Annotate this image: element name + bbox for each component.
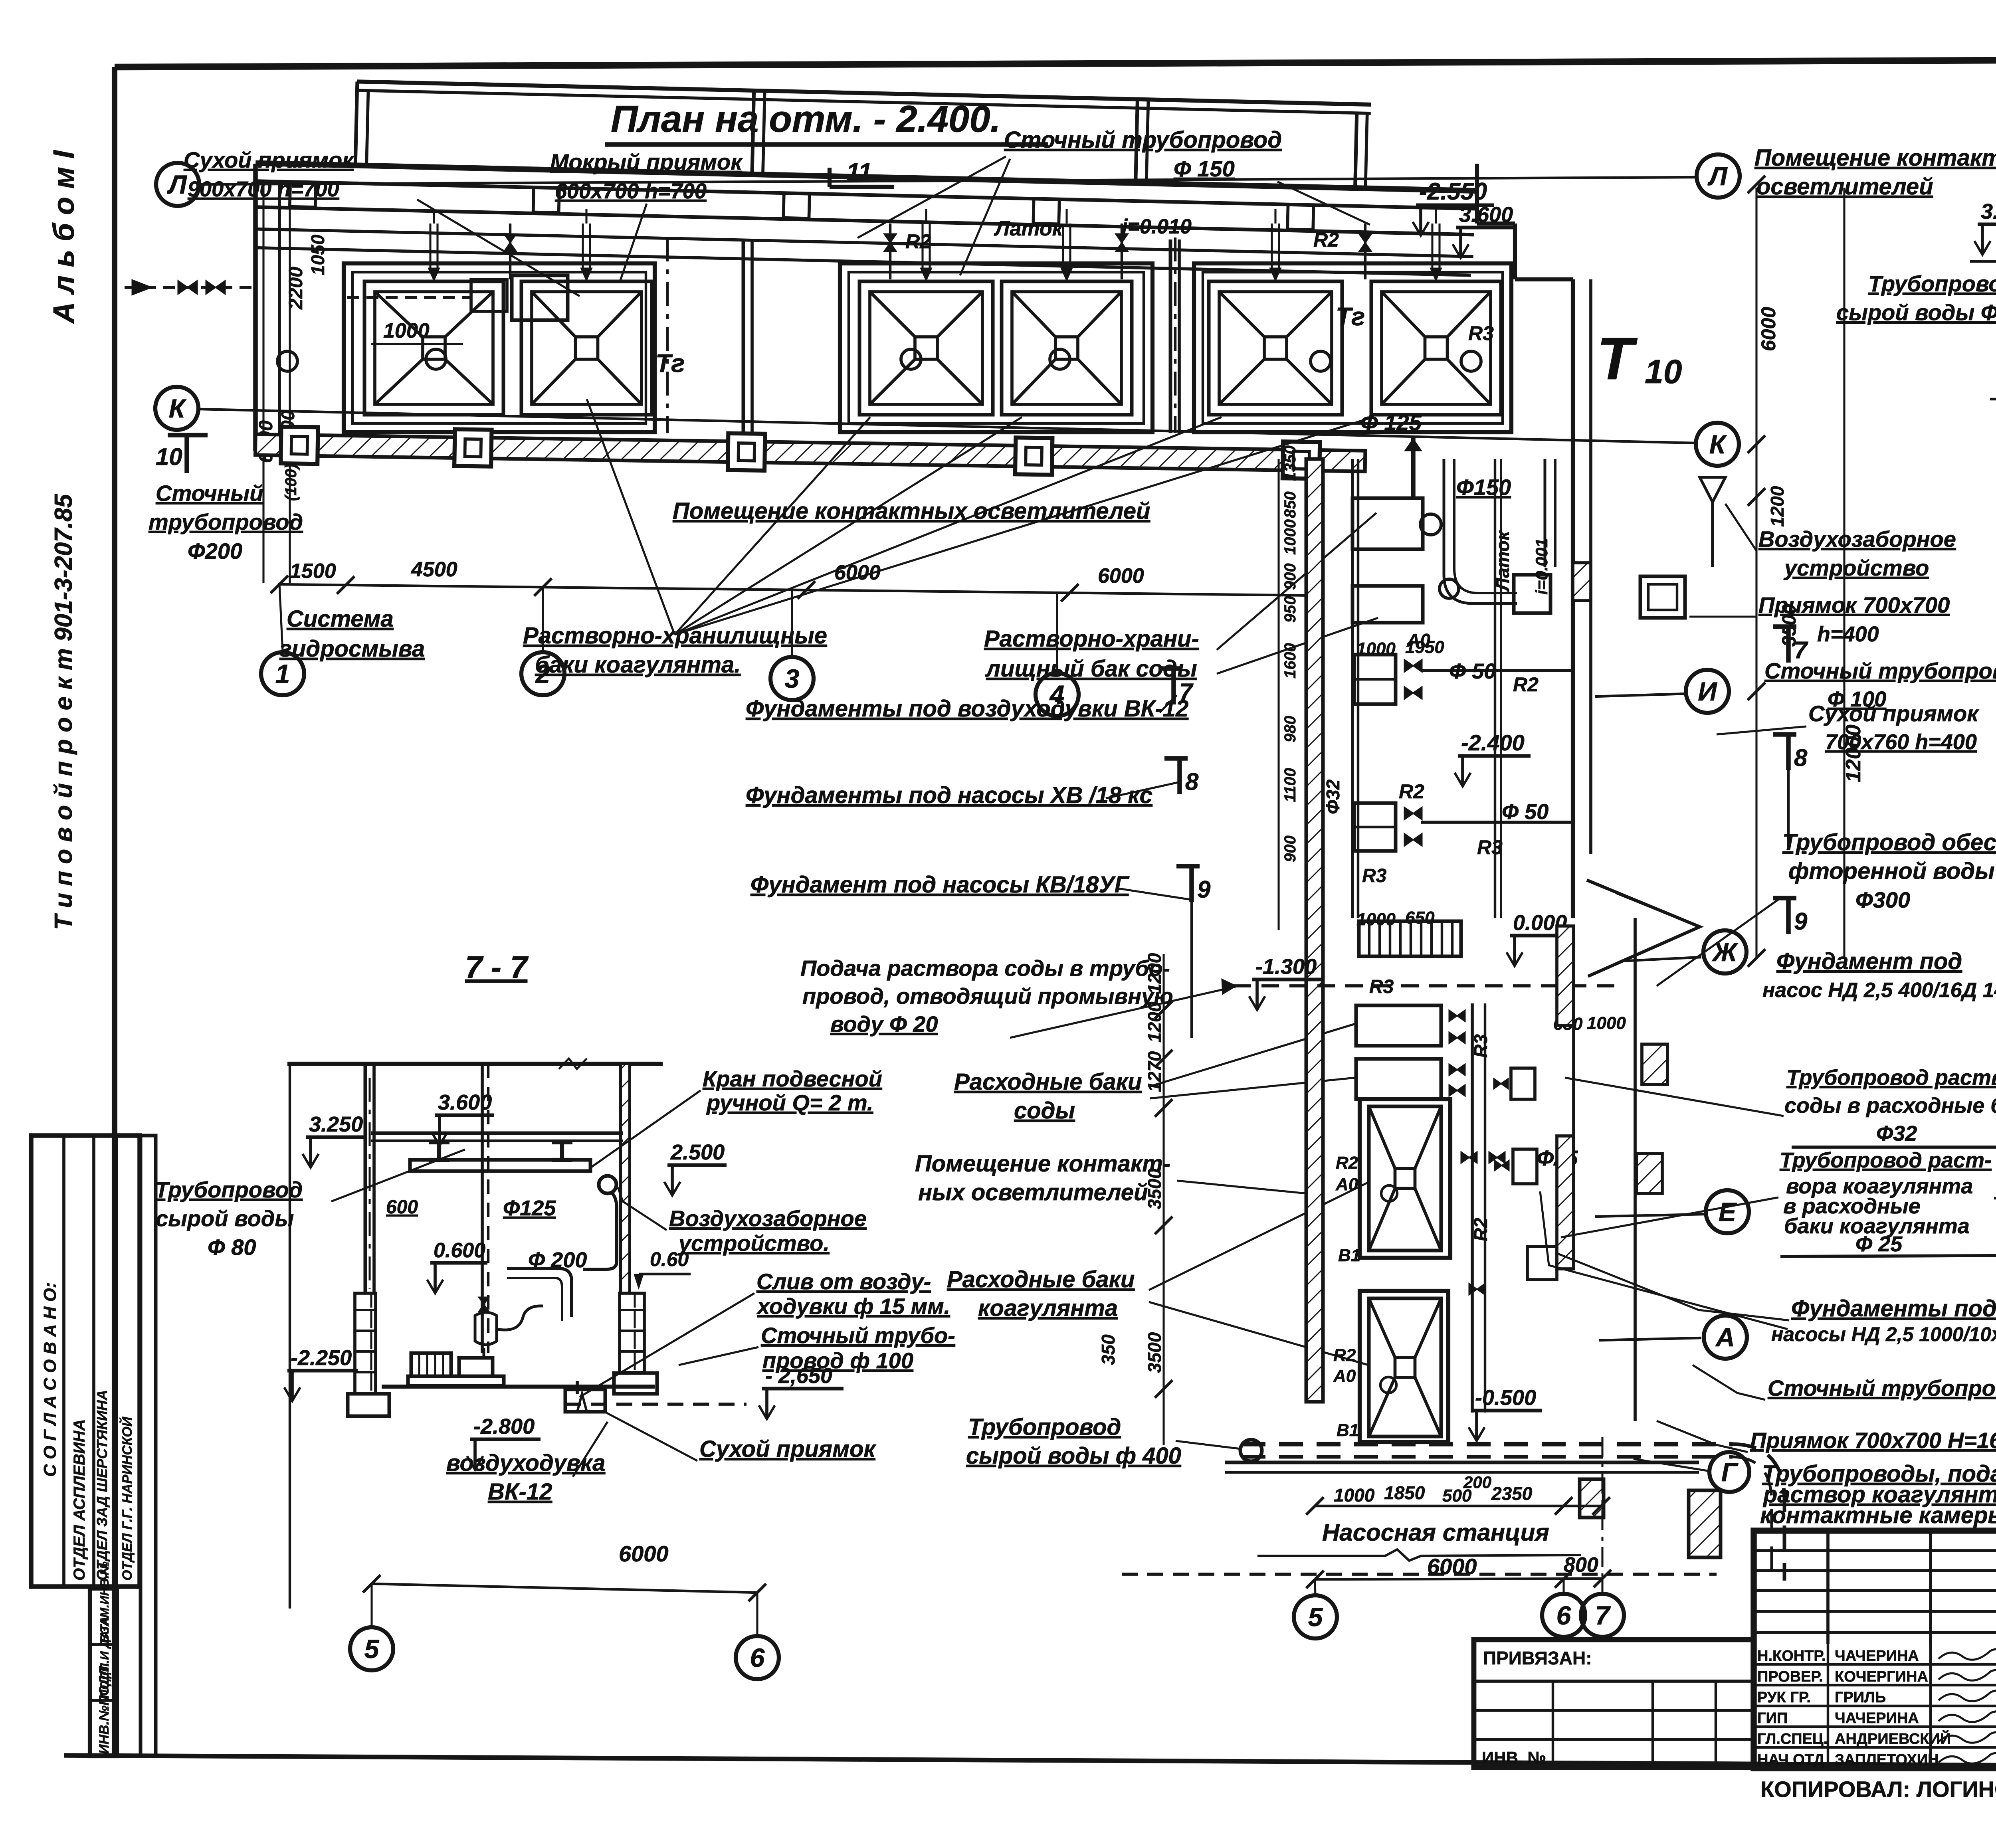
7-7 crane beam	[410, 1160, 590, 1171]
svg-text:Т: Т	[1597, 325, 1638, 392]
big tank 2	[1360, 1291, 1448, 1442]
svg-text:Ф200: Ф200	[188, 538, 242, 564]
section ticks 7 8 9 left	[1171, 669, 1176, 704]
svg-text:10: 10	[1645, 353, 1682, 390]
svg-text:8: 8	[1794, 744, 1808, 771]
svg-text:1050: 1050	[307, 234, 328, 275]
svg-text:7: 7	[1595, 1601, 1611, 1630]
svg-text:Фундаменты под насосы ХВ /18 к: Фундаменты под насосы ХВ /18 кс	[746, 782, 1152, 808]
svg-text:3500: 3500	[1144, 1168, 1165, 1209]
leaders to tanks	[587, 399, 675, 635]
svg-text:В1: В1	[1338, 1246, 1360, 1265]
svg-text:h=400: h=400	[1817, 622, 1879, 646]
svg-text:фторенной воды: фторенной воды	[1788, 858, 1995, 884]
svg-text:ЧАЧЕРИНА: ЧАЧЕРИНА	[1835, 1648, 1919, 1664]
svg-text:R3: R3	[1468, 322, 1494, 344]
svg-text:НАЧ.ОТД: НАЧ.ОТД	[1757, 1751, 1824, 1768]
axis circle К	[1696, 423, 1739, 466]
svg-text:С О Г Л А С О В А Н О:: С О Г Л А С О В А Н О:	[40, 1282, 60, 1477]
U pipe (lotok)	[1444, 459, 1517, 603]
svg-text:ГЛ.СПЕЦ.: ГЛ.СПЕЦ.	[1757, 1731, 1828, 1747]
svg-text:Н.КОНТР.: Н.КОНТР.	[1757, 1648, 1826, 1664]
svg-text:А: А	[1715, 1322, 1735, 1352]
second box	[1352, 586, 1423, 623]
svg-text:Фундамент под: Фундамент под	[1776, 948, 1962, 974]
svg-text:ходувки ф 15 мм.: ходувки ф 15 мм.	[756, 1294, 950, 1319]
svg-text:600: 600	[386, 1197, 418, 1218]
7-7 left dim line	[289, 1064, 291, 1609]
svg-text:насос НД 2,5 400/16Д 14А: насос НД 2,5 400/16Д 14А	[1762, 979, 1996, 1002]
svg-text:200: 200	[1463, 1473, 1491, 1492]
svg-text:Помещение контакт-: Помещение контакт-	[915, 1151, 1170, 1177]
svg-text:1950: 1950	[1405, 637, 1444, 657]
stairs upper	[1359, 921, 1461, 956]
vertical pipe column right of tanks	[1471, 1003, 1474, 1413]
7-7 air intake funnel and pipe	[599, 1176, 616, 1193]
axis circle 3	[770, 657, 814, 700]
svg-text:ВК-12: ВК-12	[488, 1479, 552, 1505]
svg-text:3.250: 3.250	[309, 1112, 363, 1136]
left stamp column 2	[141, 1136, 156, 1756]
riser pipe	[582, 224, 584, 268]
svg-text:Сточный трубопровод: Сточный трубопровод	[1004, 127, 1282, 153]
svg-text:ЗАПЛЕТОХИН: ЗАПЛЕТОХИН	[1835, 1751, 1939, 1768]
svg-text:R2: R2	[1513, 673, 1539, 696]
pipe stub at left with valves	[125, 286, 255, 289]
svg-text:Сухой приямок: Сухой приямок	[699, 1436, 876, 1462]
I axis circle	[1595, 694, 1687, 696]
svg-text:Ф300: Ф300	[1855, 887, 1910, 912]
svg-text:ЧАЧЕРИНА: ЧАЧЕРИНА	[1835, 1710, 1919, 1727]
svg-text:Расходные баки: Расходные баки	[954, 1069, 1142, 1095]
svg-text:1200: 1200	[1144, 953, 1165, 994]
upper-left small grid	[1754, 1549, 1996, 1552]
riser pipe	[921, 224, 923, 268]
svg-text:ПРИВЯЗАН:: ПРИВЯЗАН:	[1483, 1648, 1592, 1668]
svg-text:6000: 6000	[1098, 564, 1144, 588]
valve boxes 1	[1354, 655, 1396, 704]
dash-dot column lines	[666, 237, 669, 433]
svg-text:соды в расходные баки: соды в расходные баки	[1784, 1094, 1996, 1118]
pump boxes right	[1511, 1068, 1535, 1099]
7-7 F200 pipe run	[507, 1268, 572, 1317]
leaders	[857, 156, 1006, 238]
svg-text:насосы НД 2,5 1000/10х 14А: насосы НД 2,5 1000/10х 14А	[1771, 1323, 1996, 1345]
tank (contact clarifier cell)	[1369, 1298, 1441, 1436]
svg-text:980: 980	[1281, 716, 1299, 742]
svg-text:R3: R3	[1362, 865, 1387, 886]
svg-text:Т и п о в о й п р о е к т 9: Т и п о в о й п р о е к т 901-3-207.85	[50, 493, 77, 930]
svg-text:Слив от возду-: Слив от возду-	[756, 1269, 931, 1294]
svg-text:R2: R2	[1336, 1153, 1358, 1173]
svg-text:осветлителей: осветлителей	[1756, 174, 1933, 200]
svg-text:- 2,650: - 2,650	[765, 1364, 832, 1388]
svg-text:3.600: 3.600	[438, 1090, 492, 1114]
7-7 right wall	[619, 1064, 623, 1293]
svg-text:сырой воды Ф80: сырой воды Ф80	[1836, 300, 1996, 325]
svg-text:И: И	[1698, 677, 1717, 706]
wet pit boxes in plan	[471, 279, 507, 311]
svg-text:Ф 50: Ф 50	[1449, 659, 1496, 683]
cross walls between tank groups	[742, 239, 745, 433]
svg-text:воду Ф 20: воду Ф 20	[830, 1011, 938, 1037]
svg-text:Тг: Тг	[1336, 302, 1365, 331]
svg-text:Фундамент под насосы КВ/18УГ: Фундамент под насосы КВ/18УГ	[750, 872, 1130, 898]
svg-text:R2: R2	[905, 230, 931, 253]
svg-text:Кран подвесной: Кран подвесной	[703, 1066, 882, 1091]
axis circle Л	[1697, 154, 1740, 198]
leader	[417, 200, 580, 296]
7-7 floor line	[382, 1385, 655, 1389]
svg-text:7 - 7: 7 - 7	[465, 950, 529, 985]
R2 vertical pipes in wing	[1494, 459, 1496, 918]
big dashed raw water pipe F400	[1242, 1442, 1733, 1446]
tank (contact clarifier cell)	[1002, 281, 1132, 415]
pit box bottom of U	[1514, 575, 1550, 613]
small valves between risers	[504, 234, 517, 251]
svg-text:Ф32: Ф32	[1323, 780, 1343, 814]
svg-text:Латок: Латок	[994, 217, 1064, 240]
svg-text:5: 5	[1308, 1602, 1323, 1632]
svg-text:Трубопровод: Трубопровод	[1868, 271, 1996, 296]
svg-text:-0.500: -0.500	[1475, 1386, 1536, 1410]
dim verticals	[262, 184, 264, 583]
svg-text:Е: Е	[1719, 1197, 1737, 1227]
svg-text:7: 7	[1179, 679, 1194, 705]
svg-text:Сточный трубопровод ф100: Сточный трубопровод ф100	[1768, 1375, 1996, 1401]
axis line K	[200, 409, 1697, 443]
dashed line -1.300	[1234, 984, 1617, 987]
privyazan box	[1474, 1640, 1753, 1767]
svg-text:Ф 50: Ф 50	[1502, 800, 1548, 824]
svg-text:1850: 1850	[1384, 1482, 1425, 1503]
riser pipe	[1271, 224, 1273, 268]
tank (contact clarifier cell)	[1371, 281, 1501, 415]
svg-text:R3: R3	[1470, 1034, 1491, 1058]
axis line L	[200, 177, 1697, 184]
svg-text:АНДРИЕВСКИЙ: АНДРИЕВСКИЙ	[1835, 1729, 1951, 1747]
svg-text:Система: Система	[287, 606, 394, 632]
corridor columns	[281, 427, 318, 464]
7-7 dry pit and drain	[565, 1389, 605, 1412]
svg-text:i=0.001: i=0.001	[1532, 538, 1551, 595]
axis circle Ж	[1703, 930, 1746, 973]
svg-text:А0: А0	[1333, 1366, 1356, 1386]
7-7 left wall	[364, 1064, 367, 1293]
svg-text:1: 1	[275, 659, 290, 689]
svg-text:А л ь б о м I: А л ь б о м I	[47, 150, 80, 324]
svg-text:Ф 25: Ф 25	[1855, 1232, 1903, 1256]
svg-text:1270: 1270	[1144, 1051, 1165, 1092]
svg-text:ГИП: ГИП	[1757, 1710, 1788, 1727]
svg-text:коагулянта: коагулянта	[978, 1295, 1118, 1321]
corridor hatched wall band	[255, 426, 1365, 479]
svg-text:1200: 1200	[1767, 486, 1788, 527]
E axis circle	[1595, 1214, 1704, 1217]
right vertical dim chain	[1755, 188, 1757, 958]
dashed horizontal pipes at tanks bottom	[1122, 1573, 1717, 1576]
svg-text:(100): (100)	[282, 464, 300, 501]
svg-text:-2.400: -2.400	[1461, 730, 1525, 755]
svg-text:Сухой приямок: Сухой приямок	[184, 147, 354, 172]
svg-text:ОТДЕЛ ЗАД ШЕРСТЯКИНА: ОТДЕЛ ЗАД ШЕРСТЯКИНА	[94, 1390, 110, 1581]
svg-text:ИНВ. №: ИНВ. №	[1482, 1748, 1546, 1767]
svg-text:4500: 4500	[411, 558, 457, 581]
svg-text:5: 5	[364, 1634, 380, 1664]
section ticks 7 8 9 right	[1786, 627, 1791, 663]
Zh axis circle	[1621, 957, 1701, 961]
svg-text:2: 2	[535, 659, 550, 689]
svg-text:ОТДЕЛ Г.Г. НАРИНСКОЙ: ОТДЕЛ Г.Г. НАРИНСКОЙ	[119, 1416, 135, 1581]
svg-text:Ф 125: Ф 125	[1360, 410, 1422, 435]
svg-text:Сточный: Сточный	[156, 481, 263, 506]
svg-text:сырой воды: сырой воды	[156, 1206, 294, 1231]
tank (contact clarifier cell)	[859, 281, 993, 415]
svg-text:ручной Q= 2 т.: ручной Q= 2 т.	[706, 1090, 873, 1115]
svg-text:В1: В1	[1337, 1421, 1359, 1440]
wing right wall segments lower	[1557, 926, 1574, 1025]
svg-text:R3: R3	[1369, 976, 1394, 997]
svg-text:Помещение контактных: Помещение контактных	[1754, 145, 1996, 171]
7-7 ceiling beam	[371, 1132, 623, 1135]
svg-text:ГРИЛЬ: ГРИЛЬ	[1835, 1689, 1886, 1706]
svg-text:Л: Л	[167, 170, 187, 199]
svg-text:Ж: Ж	[1711, 937, 1739, 967]
axis circle 5	[350, 1627, 393, 1670]
svg-text:Трубопровод: Трубопровод	[155, 1177, 303, 1202]
svg-text:Помещение контактных осветлите: Помещение контактных осветлителей	[673, 498, 1150, 524]
svg-text:Сухой приямок: Сухой приямок	[1808, 701, 1979, 726]
7-7 pump and motor	[411, 1353, 451, 1376]
svg-text:А0: А0	[1335, 1175, 1358, 1194]
svg-text:850: 850	[1281, 491, 1299, 518]
svg-text:Растворно-хранилищные: Растворно-хранилищные	[523, 623, 827, 649]
svg-text:Г: Г	[1721, 1457, 1739, 1487]
svg-text:900: 900	[1281, 835, 1299, 862]
svg-text:6: 6	[750, 1643, 765, 1672]
svg-text:0.600: 0.600	[434, 1239, 485, 1262]
svg-text:1600: 1600	[1281, 643, 1299, 679]
axis circle К	[155, 387, 198, 430]
approval stamp table (rotated)	[31, 1136, 140, 1587]
tank (contact clarifier cell)	[364, 281, 503, 415]
svg-text:3.250: 3.250	[1981, 200, 1996, 224]
svg-text:К: К	[1709, 429, 1727, 459]
svg-text:ПРОВЕР.: ПРОВЕР.	[1757, 1668, 1823, 1685]
wing east outer wall line	[1634, 918, 1637, 1421]
inventory strip (rotated)	[90, 1589, 117, 1756]
big tank 1 (coagulant feed)	[1360, 1099, 1450, 1258]
svg-text:ВЗАМ.ИНВ.№: ВЗАМ.ИНВ.№	[98, 1561, 111, 1642]
svg-text:гидросмыва: гидросмыва	[279, 636, 425, 662]
svg-text:6: 6	[1556, 1601, 1572, 1630]
valve boxes 2	[1354, 803, 1396, 851]
svg-text:950: 950	[1281, 596, 1299, 623]
svg-text:Сточный трубо-: Сточный трубо-	[761, 1323, 955, 1348]
axis circle И	[1686, 670, 1729, 713]
svg-text:6000: 6000	[1757, 307, 1780, 351]
axis circle 2	[521, 652, 564, 695]
svg-text:Трубопровод: Трубопровод	[968, 1414, 1121, 1440]
svg-text:Подача раствора соды в трубо-: Подача раствора соды в трубо-	[800, 956, 1170, 981]
svg-text:1350: 1350	[1281, 445, 1299, 481]
svg-text:R2: R2	[1333, 1345, 1356, 1365]
svg-text:R2: R2	[1470, 1218, 1491, 1241]
svg-text:1000: 1000	[1587, 1013, 1626, 1033]
svg-text:Ф32: Ф32	[1876, 1122, 1917, 1146]
svg-text:Сточный трубопровод: Сточный трубопровод	[1764, 658, 1996, 683]
A axis circle	[1599, 1338, 1701, 1340]
hatched blocks right	[1642, 1044, 1667, 1084]
axis circle 7	[1581, 1594, 1624, 1637]
svg-text:350: 350	[1098, 1334, 1119, 1365]
axis circle Г	[1709, 1452, 1749, 1492]
svg-text:Л: Л	[1707, 161, 1728, 191]
7-7 top slab	[287, 1062, 663, 1066]
staff rows	[1754, 1663, 1996, 1666]
svg-text:1000: 1000	[1281, 519, 1299, 555]
svg-text:сырой воды ф 400: сырой воды ф 400	[966, 1443, 1181, 1469]
svg-text:900: 900	[1281, 563, 1299, 590]
axis circle 6	[736, 1636, 779, 1679]
axis circle А	[1704, 1316, 1747, 1359]
drawing frame bottom line	[64, 1755, 1996, 1768]
svg-text:Расходные баки: Расходные баки	[947, 1266, 1135, 1292]
funnel air intake	[1700, 477, 1725, 502]
svg-text:-2.250: -2.250	[291, 1346, 352, 1370]
soda feed tanks	[1356, 1005, 1441, 1046]
riser pipe	[1062, 224, 1064, 268]
svg-text:6000: 6000	[834, 561, 881, 584]
svg-text:Трубопровод обес-: Трубопровод обес-	[1782, 829, 1996, 855]
svg-text:Воздухозаборное: Воздухозаборное	[669, 1206, 867, 1231]
svg-text:Ф 150: Ф 150	[1174, 156, 1235, 181]
top wall of plan strip	[255, 163, 1477, 191]
title block outer	[1754, 1531, 1996, 1768]
7-7 inner pipes	[481, 1064, 484, 1353]
leader	[620, 204, 647, 281]
svg-text:10: 10	[156, 443, 182, 470]
svg-text:Ф 80: Ф 80	[208, 1235, 256, 1260]
axis circle Л	[156, 163, 199, 206]
svg-text:1500: 1500	[290, 560, 336, 583]
svg-text:Тг: Тг	[655, 349, 685, 378]
axis circle Е	[1706, 1190, 1749, 1233]
svg-text:К: К	[169, 394, 187, 423]
svg-text:устройство: устройство	[1783, 555, 1929, 580]
svg-text:i=0.010: i=0.010	[1122, 215, 1192, 238]
axis extension lines down	[279, 584, 283, 651]
svg-text:R3: R3	[1477, 836, 1503, 859]
svg-text:1000: 1000	[1334, 1485, 1375, 1506]
axis circle 6	[1542, 1594, 1585, 1637]
svg-text:Воздухозаборное: Воздухозаборное	[1758, 526, 1956, 552]
outer retaining wall above plan	[357, 81, 1371, 105]
main dimension line under plan	[278, 584, 1317, 596]
svg-text:контактные камеры.: контактные камеры.	[1760, 1502, 1996, 1528]
corner step of building	[1475, 164, 1479, 224]
tank (contact clarifier cell)	[1369, 1106, 1441, 1250]
svg-text:2.500: 2.500	[670, 1140, 725, 1164]
drawing frame top line	[115, 58, 1996, 67]
svg-text:8: 8	[1185, 768, 1199, 795]
svg-text:9: 9	[1197, 876, 1211, 903]
axis circle 5	[1294, 1595, 1337, 1638]
svg-text:Растворно-храни-: Растворно-храни-	[984, 626, 1199, 652]
svg-text:Ф125: Ф125	[503, 1196, 556, 1220]
svg-text:КОЧЕРГИНА: КОЧЕРГИНА	[1835, 1668, 1928, 1685]
tank (contact clarifier cell)	[1209, 281, 1342, 415]
pit box right	[1640, 576, 1685, 618]
svg-text:РУК ГР.: РУК ГР.	[1757, 1689, 1811, 1706]
circles in tanks	[277, 351, 297, 371]
svg-text:-2.800: -2.800	[473, 1415, 535, 1438]
svg-text:2350: 2350	[1491, 1483, 1533, 1504]
box with equipment upper wing	[1352, 498, 1423, 549]
svg-text:6000: 6000	[619, 1541, 669, 1566]
tank groups outer walls	[344, 263, 655, 432]
drawing frame left line	[112, 67, 117, 1756]
svg-text:соды: соды	[1014, 1098, 1075, 1124]
svg-text:R2: R2	[1313, 229, 1339, 251]
svg-text:700х760 h=400: 700х760 h=400	[1825, 730, 1977, 754]
svg-text:3: 3	[785, 664, 800, 693]
svg-text:Трубопровод раст-: Трубопровод раст-	[1780, 1148, 1992, 1172]
wing bottom floor lines	[1225, 1461, 1699, 1464]
svg-text:Насосная станция: Насосная станция	[1322, 1519, 1549, 1546]
svg-text:Приямок 700х700 Н=1600: Приямок 700х700 Н=1600	[1750, 1428, 1996, 1453]
svg-text:2200: 2200	[285, 267, 307, 310]
axis circle 4	[1036, 673, 1079, 716]
svg-text:трубопровод: трубопровод	[149, 509, 303, 534]
wall notches	[290, 182, 316, 207]
axis circle 1	[261, 652, 304, 695]
svg-text:9: 9	[1794, 908, 1808, 935]
svg-text:-1.300: -1.300	[1255, 955, 1317, 979]
svg-text:1100: 1100	[1281, 768, 1299, 802]
svg-text:ных осветлителей: ных осветлителей	[918, 1179, 1148, 1205]
riser pipe	[429, 224, 431, 268]
wing right wall upper	[1571, 279, 1575, 918]
wing mid dimension line left	[1162, 954, 1164, 1445]
svg-text:Приямок 700х700: Приямок 700х700	[1758, 592, 1950, 617]
svg-text:провод, отводящий промывную: провод, отводящий промывную	[802, 983, 1173, 1009]
svg-text:Трубопровод раствора: Трубопровод раствора	[1786, 1066, 1996, 1090]
tank (contact clarifier cell)	[521, 281, 652, 415]
wing left hatched wall	[1306, 459, 1323, 1402]
svg-text:КОПИРОВАЛ: ЛОГИНОВА: КОПИРОВАЛ: ЛОГИНОВА	[1760, 1777, 1996, 1802]
svg-text:3500: 3500	[1144, 1332, 1165, 1373]
riser pipe	[1431, 224, 1433, 268]
svg-text:R2: R2	[1399, 780, 1424, 803]
left end wall	[253, 164, 258, 451]
7-7 vessel	[475, 1312, 497, 1345]
signatures squiggles	[1939, 1649, 1996, 1660]
svg-text:Фундаменты под воздуходувки ВК: Фундаменты под воздуходувки ВК-12	[746, 696, 1188, 722]
svg-text:Фундаменты под: Фундаменты под	[1791, 1296, 1996, 1322]
svg-text:ОТДЕЛ АСПЛЕВИНА: ОТДЕЛ АСПЛЕВИНА	[71, 1419, 88, 1581]
svg-text:1200: 1200	[1144, 1001, 1165, 1043]
svg-text:устройство.: устройство.	[677, 1231, 830, 1256]
svg-text:Ф150: Ф150	[1456, 475, 1511, 500]
